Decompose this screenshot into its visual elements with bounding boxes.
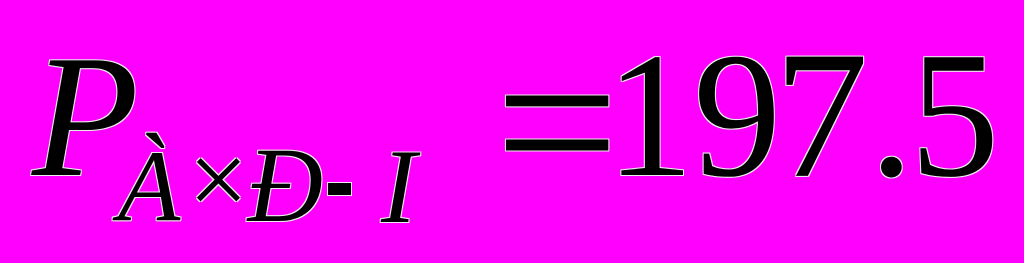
subscript multiply sign ×	[182, 127, 254, 233]
subscript letter À	[118, 136, 180, 238]
equals sign	[495, 12, 619, 232]
value digits 19	[606, 26, 781, 205]
subscript hyphen	[328, 183, 351, 195]
subscript letter Đ	[248, 132, 323, 239]
value digit 7	[774, 24, 869, 206]
subscript variable I	[381, 134, 416, 240]
decimal point	[870, 29, 914, 204]
variable P	[32, 29, 139, 204]
value digit 5	[910, 25, 999, 205]
